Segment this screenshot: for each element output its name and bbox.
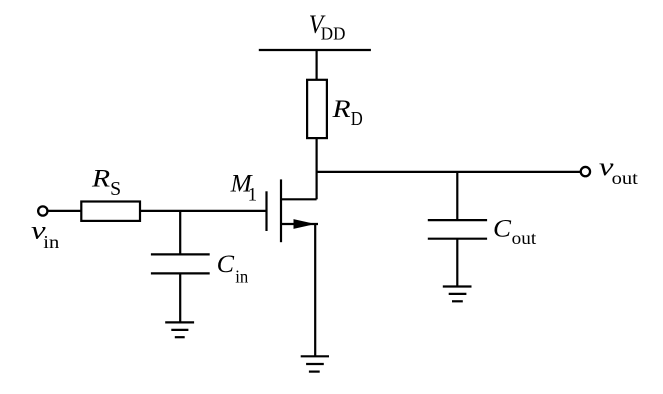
wire RD bottom to drain node: [316, 138, 318, 199]
svg-text:1: 1: [248, 185, 258, 206]
ground below M1 source: [301, 356, 329, 371]
wire Cin to ground: [179, 273, 181, 322]
wire VDD rail to RD top: [316, 50, 318, 80]
label M1: [230, 170, 258, 205]
wire gate node down to Cin: [179, 211, 181, 255]
ground below Cin: [165, 322, 194, 337]
label Cin: [217, 251, 249, 286]
transistor M1 drain lead: [281, 198, 317, 200]
svg-text:C: C: [217, 251, 235, 278]
resistor RS body: [81, 202, 140, 221]
transistor M1 channel bar: [280, 179, 282, 242]
svg-text:out: out: [612, 168, 638, 188]
terminal vout circle: [581, 167, 590, 176]
svg-text:D: D: [351, 109, 363, 130]
resistor RD body: [307, 80, 327, 138]
label RS: [91, 166, 121, 200]
node VDD supply rail: [259, 49, 371, 51]
wire drain node to output terminal: [317, 171, 581, 173]
label vin: [31, 218, 59, 252]
capacitor Cout bottom plate: [428, 238, 487, 240]
wire source to ground: [314, 224, 316, 356]
ground below Cout: [443, 287, 472, 302]
label VDD: [309, 9, 346, 43]
label vout: [599, 154, 638, 188]
wire Cout to ground: [456, 239, 458, 287]
svg-text:in: in: [235, 266, 248, 286]
wire RS to gate of M1: [140, 210, 268, 212]
label RD: [331, 96, 362, 130]
svg-text:R: R: [91, 166, 110, 193]
svg-text:out: out: [512, 228, 537, 248]
terminal vin circle: [38, 206, 47, 215]
capacitor Cin top plate: [151, 253, 210, 255]
capacitor Cout top plate: [428, 219, 487, 221]
label Cout: [493, 216, 536, 249]
transistor M1 source lead: [281, 223, 318, 225]
svg-text:S: S: [110, 179, 121, 200]
svg-text:DD: DD: [321, 23, 346, 43]
capacitor Cin bottom plate: [151, 272, 210, 274]
transistor M1 source arrow: [294, 219, 316, 229]
transistor M1 gate bar: [265, 191, 267, 231]
wire input terminal to RS: [47, 210, 81, 212]
svg-text:C: C: [493, 216, 511, 243]
svg-text:in: in: [43, 232, 59, 252]
svg-text:R: R: [331, 96, 350, 123]
wire output node down to Cout: [456, 172, 458, 220]
